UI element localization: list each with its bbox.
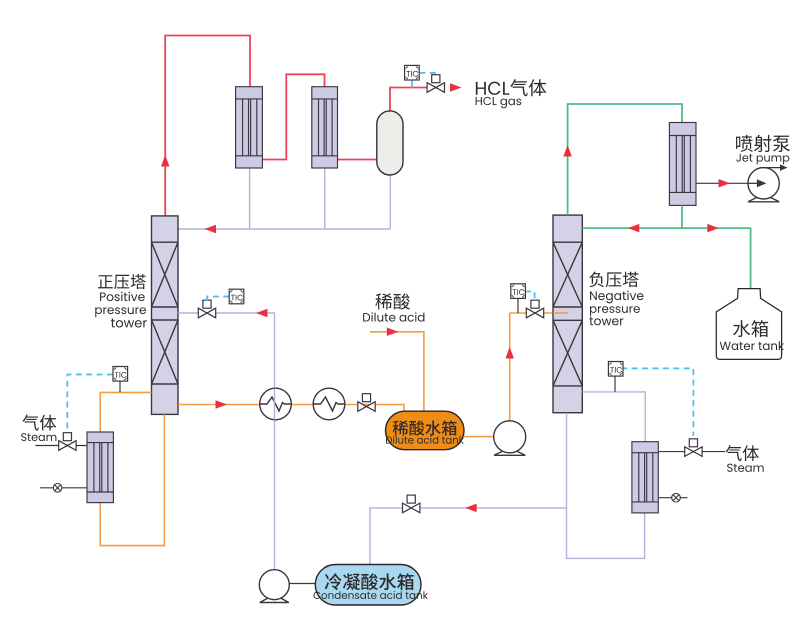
label steam (zh) right xyxy=(725,445,758,461)
drain trap right (circle-x) xyxy=(672,493,681,502)
condensate transfer line to condensate tank xyxy=(370,508,567,565)
steam circulation loop negative tower (lavender) xyxy=(582,392,645,442)
wire steam supply line right xyxy=(658,451,725,453)
label positive tower line2 xyxy=(95,307,146,317)
arrow flow right to water tank xyxy=(707,224,719,233)
label positive tower line3 xyxy=(111,318,147,327)
label condensate tank (zh) xyxy=(325,573,414,590)
wire water header to negative tower / water tank xyxy=(582,228,750,289)
arrow flow up to negative tower xyxy=(505,347,514,359)
condenser C1 (graphite cooler) xyxy=(236,87,263,168)
instrument TIC1 xyxy=(405,65,420,80)
signal dashed TIC1 to valve V1 actuator xyxy=(419,73,435,77)
dilute acid tank (orange stadium) xyxy=(386,411,465,450)
steam circulation loop positive tower (orange) xyxy=(100,392,151,432)
arrow flow left to tower mid valve xyxy=(256,309,268,318)
arrow flow right to jet pump xyxy=(719,179,731,188)
instrument stem TIC1 to HCL line xyxy=(411,80,413,88)
valve V5 negative tower feed xyxy=(526,300,543,318)
signal dashed TIC3 to steam valve V3 xyxy=(67,375,113,431)
label steam (en) right xyxy=(727,464,764,472)
wire separator top to HCL product valve xyxy=(390,88,444,112)
wire steam supply line left xyxy=(35,445,87,447)
label dilute acid (en) xyxy=(363,312,424,321)
label negative tower line3 xyxy=(589,317,623,326)
label dilute acid tank (en) xyxy=(386,436,464,444)
wire reboiler-L bottom loop xyxy=(100,414,164,545)
label negative tower line1 xyxy=(590,291,643,304)
wire riser crossing HE1 circle xyxy=(274,389,276,420)
negative pressure tower T2 xyxy=(553,215,582,413)
valve V7 condensate line xyxy=(403,495,420,513)
wire condenser C3 bottom drop xyxy=(681,205,683,228)
signal dashed TIC4 to valve V5 xyxy=(525,292,535,301)
label steam (zh) left xyxy=(22,415,56,431)
label HCL gas (en) xyxy=(476,97,522,108)
arrow dilute acid feed xyxy=(387,328,399,337)
steam heater E2 (right reboiler) xyxy=(632,442,658,513)
wire vapor riser negative tower to condenser C3 xyxy=(568,104,682,215)
valve V6 steam inlet right xyxy=(685,439,702,457)
valve V4 dilute acid line xyxy=(358,394,375,412)
wire condenser-2 to separator xyxy=(338,159,377,161)
wire condensate return riser to positive tower mid xyxy=(178,313,275,569)
wire condensate collect header to positive tower xyxy=(178,228,390,230)
wire separator condensate drop xyxy=(389,175,391,229)
condenser C3 (top right) xyxy=(669,123,696,206)
heat exchanger HE1 (circle zigzag) xyxy=(260,388,292,420)
jet pump symbol xyxy=(748,168,779,202)
wire pump P1 discharge riser xyxy=(509,313,511,421)
instrument TIC3 xyxy=(113,367,128,382)
pump P1 dilute acid xyxy=(494,421,526,456)
instrument stem TIC5 xyxy=(614,376,616,392)
condenser C2 (graphite cooler) xyxy=(312,87,338,168)
separator vessel (capsule) xyxy=(377,111,403,175)
heat exchanger HE2 (circle zigzag) xyxy=(313,388,345,420)
wire drain line right xyxy=(658,497,687,499)
label dilute acid tank (zh) xyxy=(393,420,457,435)
wire riser to negative tower mid (orange) xyxy=(510,312,568,314)
label positive tower line1 xyxy=(100,292,145,301)
valve V1 HCL gas control xyxy=(427,75,444,93)
pump P2 condensate xyxy=(259,570,289,603)
label jet pump (zh) xyxy=(736,135,790,152)
condensate acid tank (blue stadium) xyxy=(315,565,421,606)
label water tank (zh) xyxy=(733,320,768,337)
signal dashed TIC5 to steam valve V6 xyxy=(621,368,693,436)
arrow flow right from tower bottom xyxy=(216,400,228,409)
arrow HCL gas outlet xyxy=(450,83,462,92)
wire drain line left xyxy=(40,487,87,489)
wire pump P2 to condensate tank xyxy=(289,583,315,585)
label dilute acid (zh) xyxy=(375,293,410,309)
wire condenser C3 to jet pump xyxy=(696,182,748,184)
arrow flow up riser xyxy=(161,155,170,167)
wire condenser-1 condensate drop xyxy=(249,168,251,229)
label positive tower (zh) xyxy=(98,274,146,289)
instrument stem TIC4 xyxy=(517,298,519,313)
positive pressure tower T1 xyxy=(152,216,179,415)
arrow flow left into positive tower xyxy=(205,225,217,234)
wire condenser-1 to condenser-2 xyxy=(262,74,324,159)
signal dashed TIC2 to valve V2 xyxy=(207,297,229,302)
label negative tower (zh) xyxy=(589,272,638,288)
valve V3 steam inlet left xyxy=(59,433,76,451)
label steam (en) left xyxy=(21,433,56,441)
instrument TIC4 xyxy=(511,284,526,299)
label condensate tank (en) xyxy=(313,591,427,599)
instrument TIC5 xyxy=(608,362,623,377)
label jet pump (en) xyxy=(736,154,789,165)
arrow flow left to condensate tank xyxy=(465,504,477,513)
instrument TIC2 xyxy=(229,289,244,304)
dilute acid feed drop xyxy=(370,332,424,411)
arrow flow up vapor riser xyxy=(563,145,572,157)
arrow flow left into negative tower xyxy=(628,224,640,233)
water tank (bottle shape) xyxy=(716,289,781,360)
wire condenser-2 condensate drop xyxy=(324,168,326,229)
drain trap left (circle-x) xyxy=(53,484,62,493)
wire hot gas riser from positive tower to condenser-1 xyxy=(165,36,250,217)
steam heater E1 (left reboiler) xyxy=(87,432,113,503)
label HCL gas (zh) xyxy=(476,79,547,96)
instrument stem TIC3 xyxy=(119,381,121,392)
label negative tower line2 xyxy=(590,306,640,316)
dilute acid transfer line (orange main) xyxy=(178,405,404,412)
label water tank (en) xyxy=(720,341,784,350)
wire feed stub into negative tower mid band xyxy=(553,312,568,314)
wire reboiler-R bottom loop xyxy=(567,413,645,559)
valve V2 positive tower reflux xyxy=(198,300,215,318)
wire tank to pump P1 xyxy=(464,436,494,438)
